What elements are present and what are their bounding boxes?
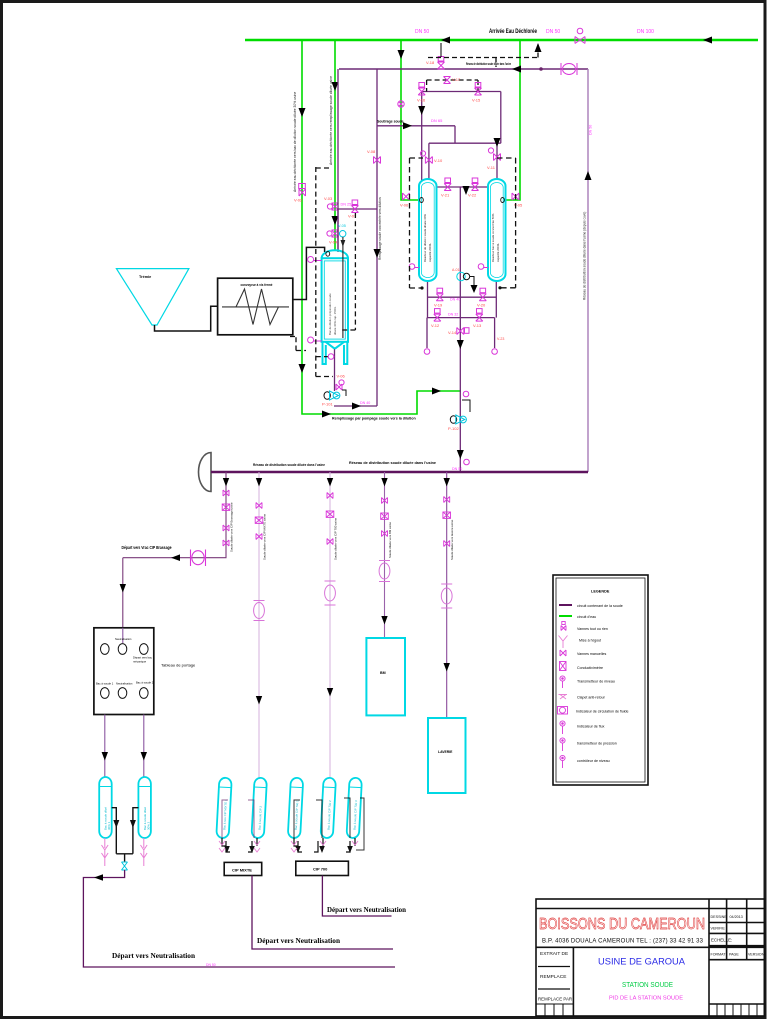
pipe valve row y317.6: [427, 317, 495, 319]
svg-text:BOISSONS DU CAMEROUN: BOISSONS DU CAMEROUN: [539, 916, 705, 933]
valve V-18 on riser top x441: [438, 57, 445, 70]
arrow left y557.7: [171, 554, 180, 561]
arrow down x384.5: [381, 478, 387, 487]
svg-text:Soude diluée vers CIP MIXTE us: Soude diluée vers CIP MIXTE usine: [263, 514, 267, 560]
arrow down on green x302 y114: [299, 108, 306, 117]
svg-text:USINE DE GAROUA: USINE DE GAROUA: [598, 957, 685, 967]
port C1 green inlet: [420, 198, 424, 203]
svg-text:DN 65: DN 65: [431, 118, 443, 123]
pipe to neutralisation left: [83, 870, 395, 967]
titleblock vertical center-right: [708, 899, 710, 1016]
svg-text:Indicateur de flux: Indicateur de flux: [577, 725, 605, 729]
dashed control line top y57.5: [428, 44, 538, 58]
arrow left y877.5: [94, 874, 103, 881]
svg-text:REMPLACE: REMPLACE: [540, 974, 566, 980]
arrow down bac2 outlet: [130, 820, 136, 828]
screw symbol: [222, 289, 289, 325]
arrow down on green x335 y87: [332, 82, 339, 91]
arrow down on green x302 y370: [299, 364, 306, 373]
svg-text:Vannes tout ou rien: Vannes tout ou rien: [577, 627, 608, 631]
tank cip700 2: [320, 778, 336, 839]
svg-text:V-15: V-15: [472, 98, 481, 103]
transmitter C2 side: [478, 264, 488, 270]
svg-text:CIP MIXTE: CIP MIXTE: [232, 868, 252, 873]
pipe x497 down to right column top: [496, 143, 498, 180]
arrow right on y125.8: [403, 122, 412, 129]
svg-text:DESSINE: DESSINE: [711, 915, 728, 919]
flow indicator drop446: [441, 584, 452, 608]
legend item12 controleur niveau: [560, 755, 565, 768]
indicator circle x494.6 y352: [492, 349, 498, 355]
svg-text:Réacteur bac à soude concentré: Réacteur bac à soude concentrée 50%: [491, 213, 495, 262]
pipe x494.6 stub below: [494, 318, 496, 348]
svg-text:V-21: V-21: [441, 193, 450, 198]
svg-text:Bac à soude 2: Bac à soude 2: [136, 681, 154, 685]
svg-text:V-11: V-11: [487, 165, 496, 170]
piping cip700: [294, 838, 355, 852]
column tank C1 left: [419, 179, 437, 281]
arrow down on green x401: [398, 50, 405, 59]
dome header left end: [198, 453, 211, 492]
transmitter magenta tank bottom left: [308, 337, 322, 343]
svg-text:STATION SOUDE: STATION SOUDE: [622, 980, 673, 989]
pipe x421.7 vertical to left column: [421, 92, 423, 187]
svg-text:V-02: V-02: [294, 198, 303, 203]
svg-text:Départ vers Neutralisation: Départ vers Neutralisation: [257, 936, 341, 945]
arrow down x226: [223, 478, 229, 487]
small arrows cip mixte: [224, 846, 230, 853]
svg-text:Réacteur de dilution soude dil: Réacteur de dilution soude diluée 30%: [423, 214, 427, 262]
svg-text:04/2013: 04/2013: [730, 915, 743, 919]
valve V-17: [444, 77, 451, 84]
flow indicator drop330: [325, 581, 336, 605]
svg-text:Soude diluée vers CIP Brassage: Soude diluée vers CIP Brassage usine: [230, 502, 234, 552]
valve V-06 on green left col: [403, 193, 410, 200]
svg-text:DN 100: DN 100: [637, 29, 654, 35]
transmitter C1 side: [409, 264, 419, 270]
dashed vertical x315.8 left of tank: [290, 167, 333, 377]
svg-text:DN 50: DN 50: [546, 29, 560, 35]
svg-text:contrôleur de niveau: contrôleur de niveau: [577, 759, 610, 763]
svg-text:V-12: V-12: [431, 323, 440, 328]
black piping bacs outlet: [112, 808, 139, 862]
drop line x226: [123, 472, 226, 628]
svg-text:DN 25: DN 25: [341, 203, 352, 207]
arrow down x421.7 y110: [418, 106, 425, 115]
svg-text:V-04: V-04: [329, 240, 338, 245]
wire funnel outlet black: [155, 306, 218, 331]
svg-text:Bac de dilution préparation so: Bac de dilution préparation soude: [328, 293, 332, 335]
drain marks cip mixte: [219, 841, 260, 852]
svg-text:Réseau de distribution soude d: Réseau de distribution soude diluée dans…: [253, 463, 325, 467]
pipe tank drain to pump: [334, 348, 336, 391]
svg-text:Arrivée eau déchlorée vers bac: Arrivée eau déchlorée vers bac de diluti…: [293, 92, 297, 192]
tank BM box: [366, 638, 405, 715]
svg-text:Clapet anti-retour: Clapet anti-retour: [577, 696, 606, 700]
svg-text:V-10: V-10: [434, 158, 443, 163]
svg-text:DN 50: DN 50: [206, 963, 216, 967]
tank bac soude 1: [99, 777, 112, 838]
valves drop384: [381, 498, 389, 537]
transmitter x466 y462: [464, 459, 470, 465]
svg-text:convoyeur à vis fermé: convoyeur à vis fermé: [241, 282, 274, 287]
arrow down x259: [256, 478, 262, 487]
mixer circle between columns: [457, 272, 470, 280]
svg-text:diluée 30% cap. 1500L: diluée 30% cap. 1500L: [333, 306, 337, 335]
pipe main purple header y69: [339, 68, 588, 70]
arrow down bac1 outlet: [113, 820, 119, 828]
svg-text:circuit d'eau: circuit d'eau: [577, 615, 596, 619]
svg-text:capacité 2000L: capacité 2000L: [428, 243, 432, 262]
legend inner: [556, 578, 645, 782]
pipe y125.8 horizontal: [377, 125, 455, 127]
titleblock right rows: [709, 923, 765, 1005]
arrow down x330 y692: [327, 688, 333, 697]
svg-text:Arrivée eau déchlorée vers rem: Arrivée eau déchlorée vers remplissage s…: [329, 76, 333, 165]
svg-text:Mise à l'égout: Mise à l'égout: [579, 639, 601, 643]
svg-text:PID DE LA STATION SOUDE: PID DE LA STATION SOUDE: [609, 996, 683, 1002]
svg-text:DN 50: DN 50: [589, 125, 593, 135]
arrow right pump discharge: [352, 403, 361, 410]
svg-text:V-14: V-14: [448, 330, 457, 335]
svg-text:FORMAT: FORMAT: [711, 953, 727, 957]
arrow down bac1: [102, 752, 108, 761]
valves drop330: [326, 493, 334, 545]
legend outer: [553, 575, 648, 785]
svg-text:30% 1: 30% 1: [107, 821, 111, 830]
pipe y209 horizontal tank to x377: [338, 208, 377, 210]
valve bacs common: [122, 862, 128, 870]
black elbow valve-pump: [342, 390, 346, 396]
pipe x588 vertical main riser: [587, 69, 589, 472]
valve V-02 on green x302: [299, 184, 306, 197]
svg-text:P-102: P-102: [448, 426, 459, 431]
legend item4 egout: [559, 636, 568, 649]
pipe x377 vertical y69-406: [376, 69, 378, 406]
dashed y80 V-17 loop: [427, 58, 496, 92]
svg-text:A-01: A-01: [452, 268, 459, 272]
svg-text:EXTRAIT DE: EXTRAIT DE: [540, 951, 568, 957]
pipe x427 stub below: [426, 318, 428, 348]
transmitter cyan tank top: [340, 231, 346, 237]
svg-text:Soude diluée vers laverie usin: Soude diluée vers laverie usine: [450, 519, 454, 560]
piping cip mixte: [222, 838, 257, 852]
svg-text:transmetteur de pression: transmetteur de pression: [577, 742, 617, 746]
svg-text:Soutirage soude: Soutirage soude: [377, 120, 404, 124]
tank cip mixte 2: [251, 778, 267, 839]
flow indicator drop384: [379, 561, 390, 582]
valve V-07 on y209: [351, 200, 358, 213]
arrow right on green bottom y414: [322, 411, 331, 418]
black elbow P102: [462, 400, 470, 412]
arrow down x463 y190: [463, 186, 470, 195]
svg-text:REMPLACE PAR: REMPLACE PAR: [538, 997, 572, 1002]
svg-text:CIP 700: CIP 700: [313, 867, 328, 872]
titleblock vertical left cells: [572, 947, 574, 1016]
dashed loop left column: [410, 158, 422, 288]
svg-text:Vannes manuelles: Vannes manuelles: [577, 652, 607, 656]
svg-text:Départ vers bac: Départ vers bac: [133, 656, 153, 660]
drain marks cip700: [291, 841, 358, 852]
svg-text:LAVERIE: LAVERIE: [438, 750, 453, 754]
pipe x339 vertical to tank cross: [337, 69, 339, 251]
dashed vertical x355.4 right of tank: [341, 213, 355, 330]
svg-text:DN 50: DN 50: [452, 467, 462, 471]
pipe bac2 feed: [143, 715, 145, 778]
drop line x384.5: [384, 472, 386, 638]
arrow down x497 y140: [494, 138, 501, 147]
svg-text:DN 40: DN 40: [450, 298, 460, 302]
tableau box: [94, 628, 154, 715]
tank laverie box: [428, 718, 466, 793]
pipe x500.8 vertical: [500, 92, 502, 144]
wire green vertical x335: [334, 40, 336, 251]
pipe into tableau: [122, 628, 124, 643]
legend item9 indicateur circulation: [558, 707, 568, 715]
pipe y91.5 valve row V-16 V-15: [422, 91, 501, 93]
box CIP MIXTE: [224, 862, 262, 875]
pipe cip700 to neutr: [322, 876, 391, 917]
column tank C2 right: [488, 179, 506, 281]
svg-text:DN 32: DN 32: [448, 313, 458, 317]
arrow right on green y391: [432, 388, 441, 395]
valve V-13: [476, 309, 483, 322]
svg-text:V-16: V-16: [417, 98, 426, 103]
arrow down center x460 y345: [457, 340, 464, 349]
arrow down x330: [327, 478, 333, 487]
junction dot dashed right: [498, 286, 501, 289]
valve V-03 on green x335: [327, 203, 338, 210]
legend item11 transmetteur pression: [560, 738, 565, 751]
svg-text:V-03: V-03: [324, 196, 333, 201]
legend item2 green: [559, 615, 572, 617]
svg-text:mécanique: mécanique: [133, 660, 147, 664]
transmitter magenta tank top left: [308, 257, 322, 263]
svg-text:VERSION: VERSION: [748, 953, 765, 957]
arrow down x377 y255: [374, 249, 381, 258]
legend item1 purple: [559, 604, 572, 606]
svg-text:BM: BM: [380, 671, 386, 675]
pipe bac1 feed: [104, 715, 106, 778]
small arrows cip700: [295, 846, 301, 853]
svg-text:Transmetteur de niveau: Transmetteur de niveau: [577, 680, 615, 684]
svg-text:Départ vers Neutralisation: Départ vers Neutralisation: [327, 905, 407, 914]
svg-text:V-06: V-06: [337, 374, 346, 379]
valve debitmetre on header x569: [561, 63, 577, 75]
svg-text:Neutralisation: Neutralisation: [115, 637, 132, 641]
arrow up to green header x538: [535, 43, 542, 52]
svg-text:V-08: V-08: [367, 149, 376, 154]
svg-text:capacité 2000L: capacité 2000L: [496, 243, 500, 262]
valve V-15: [475, 83, 482, 96]
junction dot x541 y69: [539, 67, 543, 71]
indicator circle x427 y351: [424, 349, 430, 355]
drop line x330 pale: [329, 472, 331, 777]
titleblock right verticals: [727, 899, 747, 960]
svg-text:V-17: V-17: [452, 77, 461, 82]
pipe x428.9 down to left column top: [428, 143, 430, 180]
pipe center vertical x460: [459, 187, 461, 472]
legend item7 transmetteur niveau: [560, 676, 565, 688]
legend item6 conductivimetre: [560, 662, 567, 671]
svg-text:Réseau de distribution soude d: Réseau de distribution soude diluée dans…: [466, 62, 511, 66]
pipe cip mixte to neutr: [252, 876, 393, 950]
svg-text:Remplissage par pompage soude: Remplissage par pompage soude vers la di…: [332, 417, 416, 421]
indicator circle V-09: [328, 354, 334, 360]
drain symbols magenta bac1: [102, 838, 109, 866]
tank bac soude 2: [138, 777, 151, 838]
arrow on green header right: [703, 37, 712, 44]
drain symbols magenta bac2: [141, 838, 148, 866]
legend item5 vannes manuelles: [560, 650, 566, 656]
wire green vertical x520 to right column: [506, 40, 520, 200]
valve on green header x580: [575, 28, 585, 43]
svg-text:Départ vers Neutralisation: Départ vers Neutralisation: [112, 951, 196, 960]
tableau circles row2: [101, 688, 149, 699]
tank cip700 1: [288, 778, 304, 839]
svg-text:V-19: V-19: [434, 303, 443, 308]
dashed stub left v10: [410, 157, 424, 159]
dashed loop right column: [497, 158, 516, 288]
valve V-08 on x377: [374, 157, 381, 164]
tank cip mixte 1: [216, 778, 232, 839]
box CIP 700: [296, 861, 349, 875]
arrow down x446.7: [444, 478, 450, 487]
tremie funnel: [116, 269, 188, 325]
svg-text:Départ vers Vrac CIP Brassage: Départ vers Vrac CIP Brassage: [122, 545, 173, 550]
arrow down on green x335 y222: [332, 216, 339, 225]
svg-text:Bac à soude 1: Bac à soude 1: [96, 682, 114, 686]
legend item3 vanne TOR: [561, 622, 566, 631]
arrow down x460 y455: [457, 450, 464, 459]
svg-text:Tableau de portage: Tableau de portage: [161, 663, 196, 668]
arrow on green header left: [441, 37, 450, 44]
probe black tank: [342, 237, 344, 338]
arrow down mixer elbow: [471, 285, 478, 293]
drop line x259 pale: [258, 472, 260, 778]
valve V-10: [420, 151, 432, 164]
valve V-12: [434, 309, 441, 322]
svg-text:30% 2: 30% 2: [146, 821, 150, 830]
valve drop226 a: [222, 490, 230, 546]
pipe column interconnect y187: [436, 186, 489, 188]
wire green header Arrivee Eau Dechloree: [245, 39, 758, 41]
valve on drain: [336, 380, 344, 390]
arrow up x588 y177: [585, 171, 592, 180]
svg-text:V-05: V-05: [338, 224, 346, 228]
pipe right column bottom to rows: [495, 281, 497, 318]
pipe pump P-101 discharge y406: [334, 405, 377, 407]
legend item10 indicateur flux: [560, 721, 565, 734]
valves drop259: [255, 503, 263, 540]
svg-text:PAGE: PAGE: [729, 953, 739, 957]
svg-text:V-13: V-13: [473, 323, 482, 328]
svg-text:ECHELLE:: ECHELLE:: [711, 938, 732, 943]
titleblock bottom strip cells: [536, 1004, 757, 1016]
valve butterfly y557.7: [191, 550, 206, 567]
svg-text:Trémie: Trémie: [139, 275, 151, 279]
svg-text:Réseau de distribution soude d: Réseau de distribution soude diluée dans…: [349, 461, 436, 465]
arrow down bac2: [141, 752, 147, 761]
titleblock top band line: [536, 908, 765, 910]
tank cip700 3: [346, 778, 362, 839]
valve circle on green x401: [398, 101, 404, 107]
port C2 green inlet: [501, 198, 505, 203]
pipe distribution header y472: [211, 471, 588, 473]
svg-text:Soude diluée vers BM usine: Soude diluée vers BM usine: [388, 522, 392, 558]
legend item8 clapet: [559, 695, 568, 700]
valve V-11: [488, 148, 500, 161]
titleblock outer: [536, 899, 765, 1016]
pump P-101: [324, 391, 340, 400]
pipe valve row y297.2: [427, 296, 496, 298]
svg-text:Réseau de distribution soude d: Réseau de distribution soude diluée dans…: [583, 212, 587, 300]
port tank dome left: [326, 251, 330, 256]
svg-text:Soude diluée vers CIP 700 usin: Soude diluée vers CIP 700 usine: [334, 518, 338, 560]
valve V-16: [418, 83, 425, 96]
valves drop446: [443, 497, 451, 547]
tank T1 dilution body: [322, 250, 348, 364]
valve V-22 on interconnect: [472, 178, 479, 191]
svg-text:V-23: V-23: [497, 337, 504, 341]
arrow down x384.5 y620: [381, 616, 387, 625]
convoyeur box: [218, 278, 293, 335]
pipe y143.2 horizontal: [429, 142, 501, 144]
flow indicator drop259: [254, 601, 265, 621]
svg-text:Indicateur de circulation de f: Indicateur de circulation de fluide: [576, 710, 629, 714]
valve V-04 on green x335 near tank: [327, 230, 339, 237]
svg-text:V-18: V-18: [426, 60, 435, 65]
valve V-14 center: [457, 328, 469, 335]
pipe x455 jog down: [454, 126, 456, 143]
svg-text:DN 50: DN 50: [415, 29, 429, 35]
pipe x337.7 purple into tank dome: [337, 209, 339, 252]
svg-text:VERIFIE: VERIFIE: [711, 927, 726, 931]
arrow down x446.7 y667: [444, 663, 450, 672]
pump P-102: [450, 415, 466, 424]
pipe left column bottom to rows: [427, 281, 429, 318]
tableau circles row1: [101, 644, 149, 655]
svg-text:Neutralisation: Neutralisation: [116, 682, 133, 686]
svg-text:Conductivimètre: Conductivimètre: [577, 666, 603, 670]
svg-text:circuit contenant de la soude: circuit contenant de la soude: [577, 604, 623, 608]
wire convoyeur outlet black: [293, 247, 325, 299]
svg-text:V-06: V-06: [400, 203, 409, 208]
valve V-21 on interconnect: [444, 178, 451, 191]
junction dot dashed left: [420, 286, 423, 289]
svg-text:V-22: V-22: [468, 193, 477, 198]
titleblock line below address: [536, 946, 765, 948]
drop line x446.7: [446, 472, 448, 718]
arrow down x122.8: [120, 584, 126, 593]
arrow down x259 y700: [256, 696, 262, 705]
transmitter near p102: [463, 391, 469, 397]
svg-text:V-20: V-20: [477, 303, 486, 308]
valve V-19: [436, 288, 443, 301]
arrow left on purple header y69: [512, 66, 521, 73]
svg-text:B.P. 4036 DOUALA CAMEROUN TEL: B.P. 4036 DOUALA CAMEROUN TEL : (237) 33…: [542, 939, 704, 945]
svg-text:P-101: P-101: [322, 402, 333, 407]
svg-text:LEGENDE: LEGENDE: [591, 590, 610, 594]
svg-text:DN 40: DN 40: [360, 401, 370, 405]
wire green vertical x302: [302, 40, 461, 414]
valve V-20: [479, 288, 486, 301]
valve V-05 on green right col: [512, 193, 519, 200]
wire green vertical x401 to left column: [401, 40, 419, 200]
svg-text:Arrivée Eau Déchlorée: Arrivée Eau Déchlorée: [489, 28, 537, 35]
black elbow mixer: [470, 277, 475, 291]
